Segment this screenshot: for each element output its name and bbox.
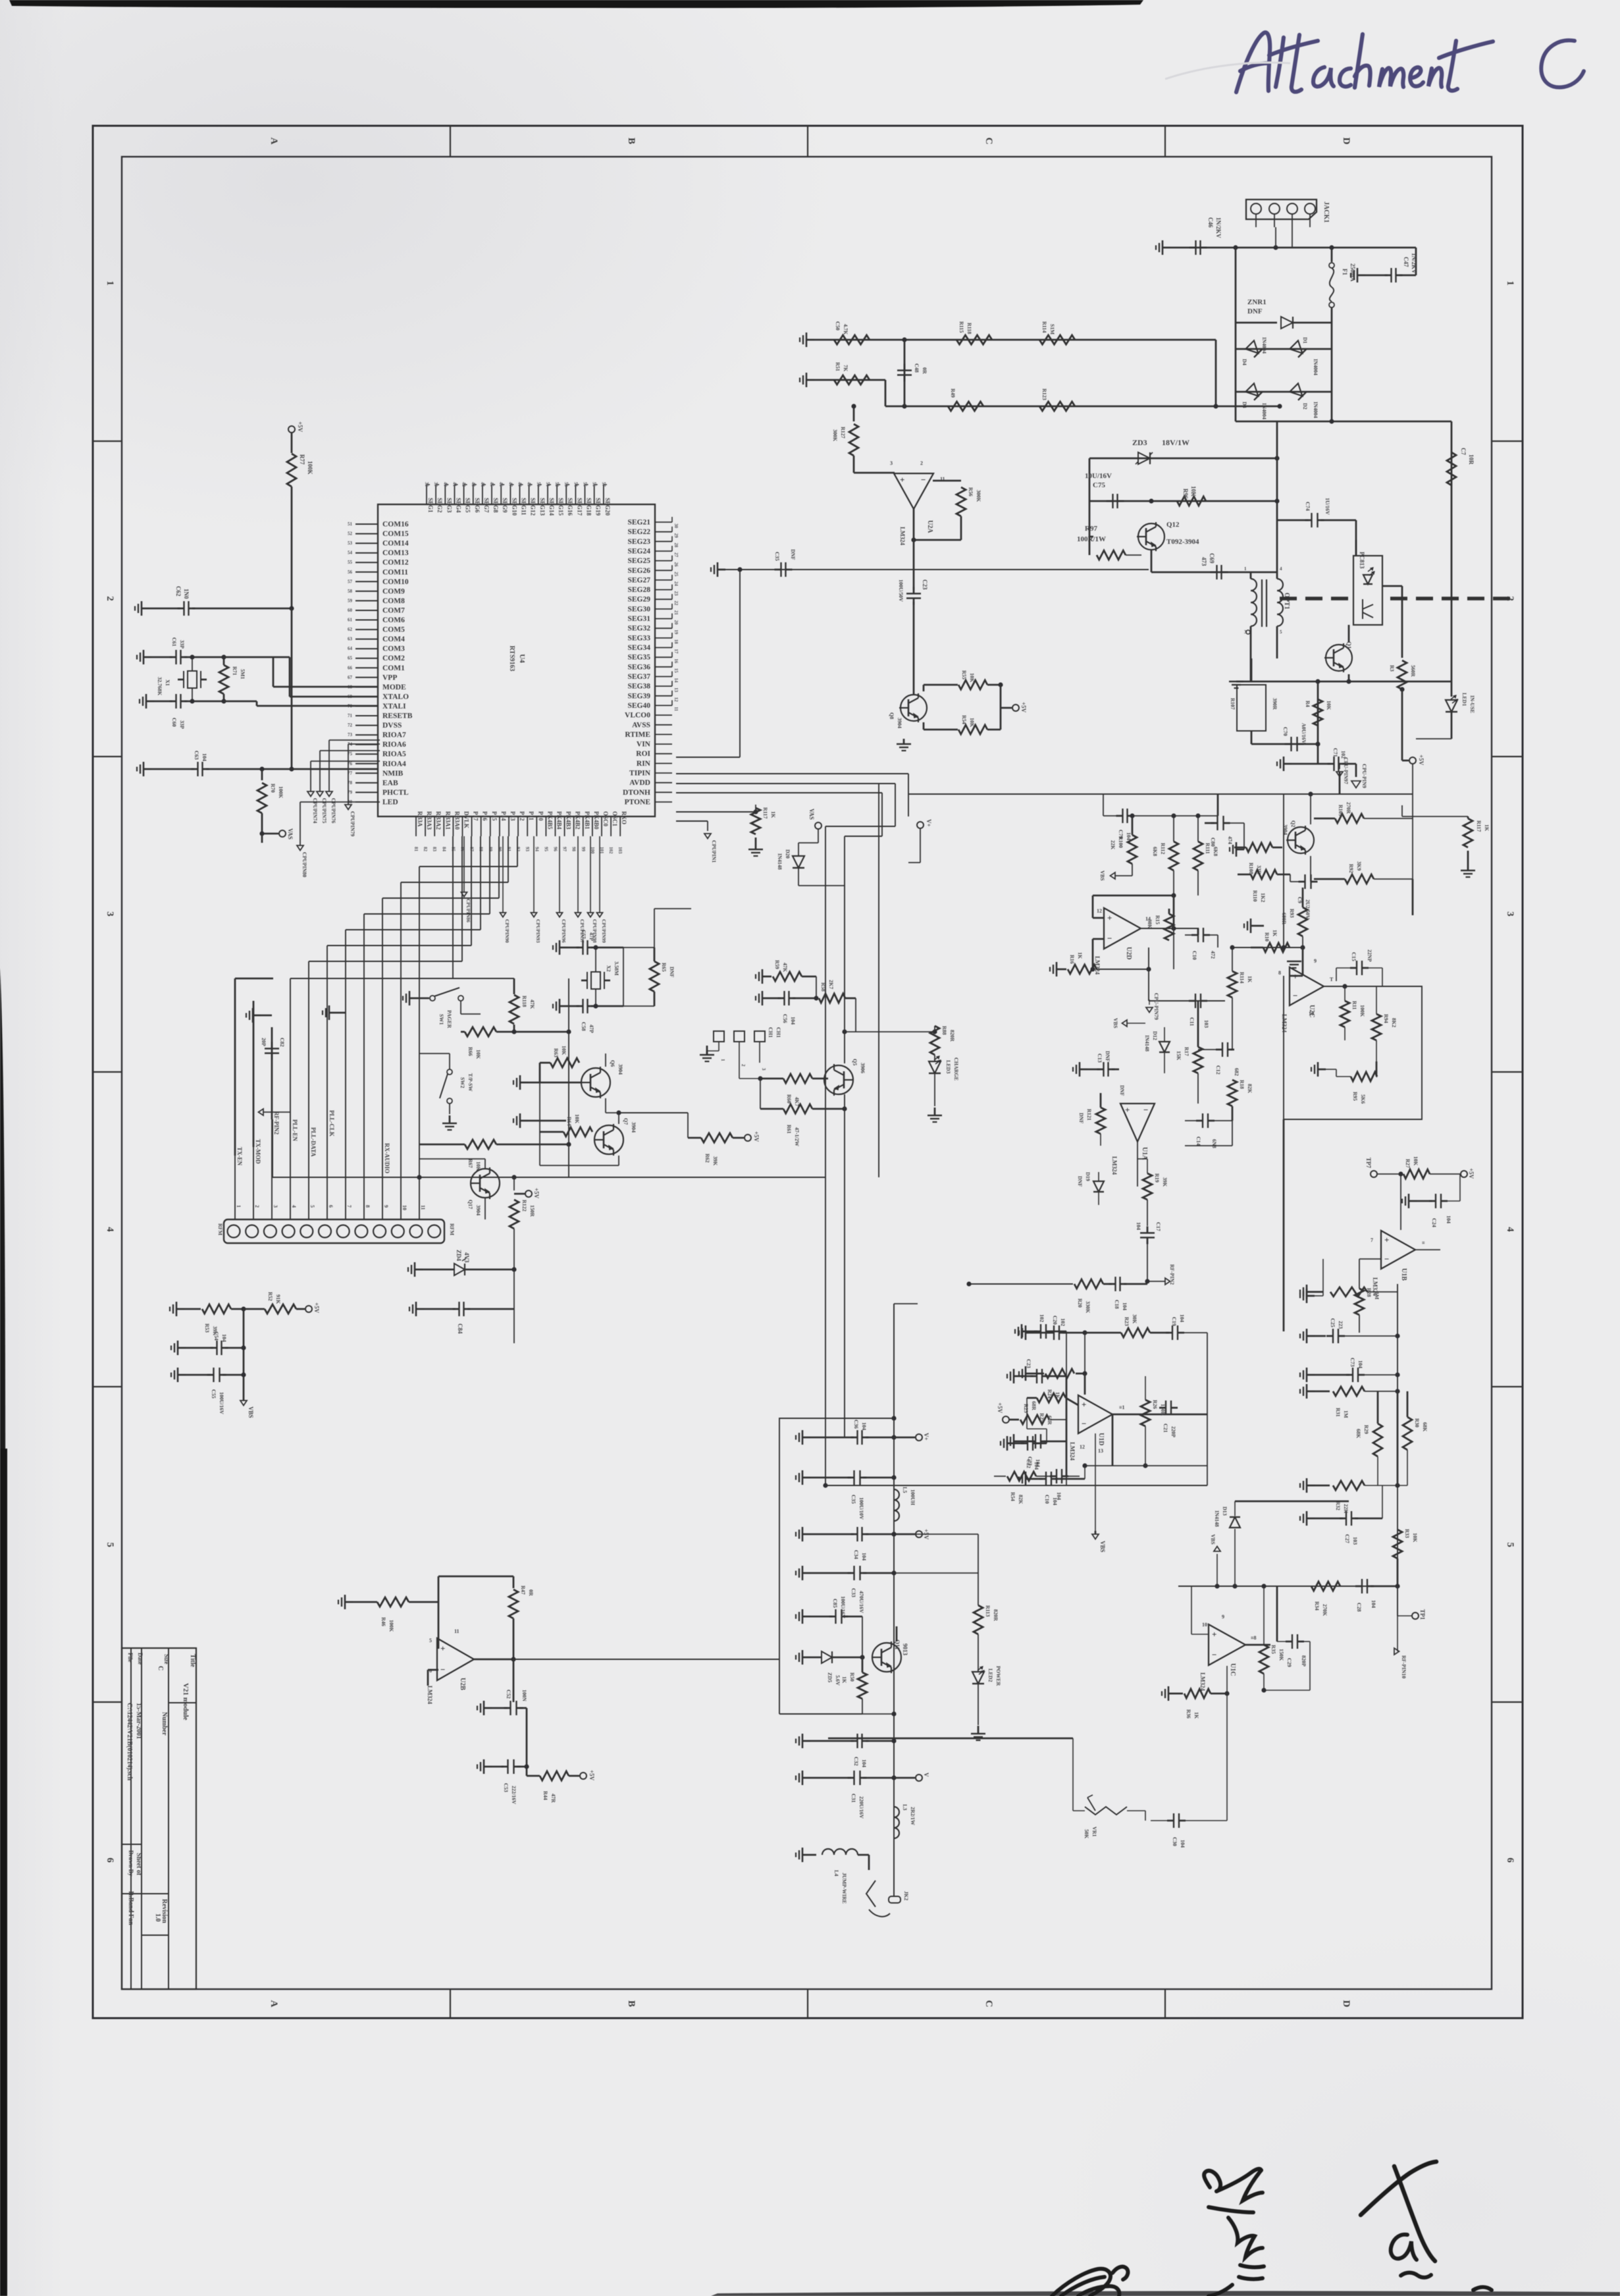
svg-text:VBS: VBS bbox=[1210, 1534, 1216, 1545]
svg-text:SEG11: SEG11 bbox=[521, 498, 527, 516]
svg-text:R17: R17 bbox=[1184, 1047, 1189, 1056]
svg-text:1U/16V: 1U/16V bbox=[1324, 498, 1330, 515]
svg-text:5: 5 bbox=[429, 1638, 432, 1643]
svg-text:U4: U4 bbox=[518, 654, 526, 663]
svg-text:COM2: COM2 bbox=[382, 654, 405, 662]
svg-text:2: 2 bbox=[254, 1205, 260, 1208]
svg-text:−: − bbox=[1384, 1254, 1389, 1264]
svg-text:P13: P13 bbox=[510, 811, 516, 821]
svg-text:R11: R11 bbox=[1351, 1001, 1357, 1009]
svg-text:R26: R26 bbox=[1152, 1400, 1158, 1409]
svg-text:R118: R118 bbox=[521, 996, 527, 1007]
svg-text:22: 22 bbox=[673, 601, 679, 606]
svg-text:10K: 10K bbox=[1413, 1156, 1419, 1166]
svg-text:98: 98 bbox=[571, 847, 577, 852]
svg-text:7K: 7K bbox=[843, 365, 849, 372]
svg-text:RF-PIN2: RF-PIN2 bbox=[1169, 1264, 1175, 1285]
svg-text:3: 3 bbox=[273, 1205, 278, 1208]
svg-text:TP7: TP7 bbox=[1365, 1158, 1372, 1169]
svg-text:32.768K: 32.768K bbox=[157, 677, 163, 696]
svg-text:300K: 300K bbox=[832, 429, 838, 442]
svg-text:X1: X1 bbox=[165, 680, 170, 686]
svg-text:IN4148: IN4148 bbox=[1144, 1035, 1150, 1052]
svg-text:C47: C47 bbox=[1403, 257, 1409, 267]
svg-text:TX-EN: TX-EN bbox=[236, 1147, 243, 1166]
svg-text:3: 3 bbox=[105, 911, 115, 917]
svg-text:C10: C10 bbox=[1191, 951, 1197, 960]
svg-text:SEG33: SEG33 bbox=[627, 634, 650, 642]
svg-text:R19: R19 bbox=[1154, 1173, 1160, 1183]
svg-text:Sheet of: Sheet of bbox=[135, 1853, 142, 1876]
svg-text:IN4004: IN4004 bbox=[1313, 359, 1319, 375]
svg-text:C74: C74 bbox=[1305, 502, 1311, 511]
svg-text:R16: R16 bbox=[1069, 955, 1075, 964]
svg-text:R108: R108 bbox=[1248, 863, 1254, 874]
svg-text:R112: R112 bbox=[1160, 843, 1166, 854]
svg-text:R114: R114 bbox=[1041, 321, 1047, 333]
svg-text:PK4B2: PK4B2 bbox=[575, 811, 581, 830]
svg-text:R117: R117 bbox=[762, 807, 768, 818]
svg-text:R110: R110 bbox=[1252, 890, 1258, 901]
svg-text:CPUPIN98: CPUPIN98 bbox=[592, 919, 598, 943]
svg-text:R20: R20 bbox=[1077, 1298, 1083, 1308]
svg-text:104: 104 bbox=[1126, 832, 1132, 840]
svg-text:SEG34: SEG34 bbox=[627, 644, 650, 652]
svg-text:C75: C75 bbox=[1093, 481, 1105, 489]
svg-text:3904: 3904 bbox=[897, 718, 902, 728]
svg-text:SEG31: SEG31 bbox=[627, 615, 650, 623]
svg-text:C: C bbox=[157, 1666, 164, 1670]
svg-text:10K: 10K bbox=[561, 1046, 567, 1055]
svg-text:R65: R65 bbox=[661, 963, 667, 972]
svg-text:C52: C52 bbox=[506, 1690, 511, 1699]
svg-text:2R2/1W: 2R2/1W bbox=[910, 1807, 916, 1825]
svg-text:104: 104 bbox=[1136, 1222, 1141, 1230]
svg-text:103: 103 bbox=[1203, 1020, 1209, 1028]
svg-text:RIOA5: RIOA5 bbox=[382, 751, 406, 759]
svg-text:COM10: COM10 bbox=[382, 578, 409, 586]
svg-text:R93: R93 bbox=[1289, 909, 1295, 918]
svg-text:COM3: COM3 bbox=[382, 645, 405, 653]
svg-text:1K: 1K bbox=[1193, 1712, 1199, 1719]
svg-text:R10: R10 bbox=[1264, 932, 1270, 942]
svg-text:−: − bbox=[921, 475, 926, 485]
svg-text:X2: X2 bbox=[606, 965, 612, 972]
svg-text:V21 module: V21 module bbox=[182, 1683, 190, 1721]
svg-text:D: D bbox=[1341, 2000, 1351, 2008]
svg-text:CPU-PIN9: CPU-PIN9 bbox=[1361, 764, 1367, 788]
svg-text:C82: C82 bbox=[279, 1038, 285, 1047]
svg-text:Number: Number bbox=[161, 1712, 168, 1736]
svg-text:Q6: Q6 bbox=[610, 1060, 615, 1067]
svg-text:57: 57 bbox=[348, 579, 353, 584]
svg-text:+5V: +5V bbox=[533, 1188, 540, 1199]
svg-text:COM16: COM16 bbox=[382, 521, 409, 529]
svg-text:C15: C15 bbox=[1351, 952, 1357, 961]
svg-text:COM15: COM15 bbox=[382, 530, 409, 538]
svg-text:C46: C46 bbox=[1207, 217, 1214, 228]
svg-text:94: 94 bbox=[534, 847, 539, 852]
svg-text:82K: 82K bbox=[1018, 1495, 1024, 1505]
svg-text:VIN: VIN bbox=[637, 741, 651, 749]
svg-text:C30: C30 bbox=[1172, 1837, 1178, 1846]
svg-text:SEG16: SEG16 bbox=[567, 498, 573, 516]
svg-text:R15: R15 bbox=[1155, 915, 1161, 924]
svg-text:C21: C21 bbox=[1163, 1424, 1168, 1433]
svg-text:COM8: COM8 bbox=[382, 597, 405, 605]
svg-text:R27: R27 bbox=[1405, 1159, 1411, 1168]
svg-text:RB3A2: RB3A2 bbox=[435, 811, 442, 830]
svg-text:R63: R63 bbox=[553, 1048, 559, 1057]
svg-text:23: 23 bbox=[673, 591, 679, 597]
svg-text:1M: 1M bbox=[1374, 1292, 1380, 1300]
svg-text:43: 43 bbox=[471, 482, 476, 487]
svg-text:Date: Date bbox=[137, 1653, 144, 1665]
svg-text:≡1: ≡1 bbox=[1119, 1404, 1125, 1410]
svg-text:F1: F1 bbox=[1342, 269, 1348, 275]
svg-text:LED: LED bbox=[382, 799, 398, 807]
svg-text:P10: P10 bbox=[537, 811, 544, 821]
svg-text:CHARGE: CHARGE bbox=[953, 1057, 959, 1081]
svg-text:1: 1 bbox=[1244, 566, 1247, 572]
svg-text:SEG37: SEG37 bbox=[627, 673, 650, 681]
svg-text:RIOA6: RIOA6 bbox=[382, 741, 406, 749]
svg-text:R49: R49 bbox=[950, 388, 956, 398]
svg-text:DNF: DNF bbox=[1119, 1085, 1125, 1096]
svg-text:DNF: DNF bbox=[669, 967, 675, 978]
svg-text:B: B bbox=[626, 138, 637, 144]
svg-text:RF-PIN2: RF-PIN2 bbox=[273, 1111, 280, 1135]
svg-text:10K: 10K bbox=[1326, 701, 1332, 710]
svg-text:104: 104 bbox=[1179, 1314, 1185, 1322]
svg-text:2K7: 2K7 bbox=[828, 980, 834, 989]
svg-text:1K: 1K bbox=[1077, 952, 1083, 959]
svg-text:COM4: COM4 bbox=[382, 635, 405, 643]
svg-text:10K: 10K bbox=[969, 718, 975, 728]
svg-text:14: 14 bbox=[673, 678, 679, 683]
svg-text:V: V bbox=[923, 1773, 929, 1777]
svg-text:33P: 33P bbox=[179, 640, 185, 649]
svg-text:R30: R30 bbox=[1414, 1418, 1420, 1428]
svg-text:T092-3904: T092-3904 bbox=[1166, 538, 1199, 546]
svg-text:+5V: +5V bbox=[753, 1131, 760, 1142]
svg-text:100K: 100K bbox=[307, 461, 313, 475]
svg-text:LM324: LM324 bbox=[1281, 1014, 1288, 1032]
svg-text:C22: C22 bbox=[1026, 1459, 1032, 1468]
svg-text:R64: R64 bbox=[566, 1117, 572, 1126]
svg-text:U2B: U2B bbox=[459, 1678, 466, 1690]
svg-text:4: 4 bbox=[1280, 566, 1282, 572]
svg-text:66: 66 bbox=[348, 665, 353, 670]
svg-text:R54: R54 bbox=[961, 715, 967, 724]
svg-text:CPUPIN80: CPUPIN80 bbox=[301, 852, 307, 877]
svg-text:SEG5: SEG5 bbox=[465, 498, 471, 513]
svg-text:R88: R88 bbox=[941, 1026, 947, 1035]
svg-text:A: A bbox=[269, 138, 279, 145]
svg-text:7: 7 bbox=[346, 1205, 352, 1208]
svg-text:C7: C7 bbox=[1460, 448, 1467, 455]
svg-text:RTIME: RTIME bbox=[625, 731, 650, 739]
svg-text:104: 104 bbox=[861, 1553, 867, 1561]
svg-text:C18: C18 bbox=[1114, 1300, 1120, 1309]
svg-text:10K: 10K bbox=[574, 1114, 580, 1124]
svg-text:+5V: +5V bbox=[997, 1402, 1003, 1414]
svg-text:2: 2 bbox=[920, 460, 923, 466]
svg-text:C12: C12 bbox=[1215, 1065, 1221, 1075]
svg-text:2: 2 bbox=[741, 1064, 746, 1067]
svg-text:TX-MOD: TX-MOD bbox=[255, 1139, 261, 1164]
svg-text:PK4B5: PK4B5 bbox=[546, 811, 553, 830]
svg-text:P16: P16 bbox=[482, 811, 488, 821]
svg-text:6: 6 bbox=[328, 1205, 334, 1208]
svg-text:C36: C36 bbox=[853, 1420, 859, 1429]
svg-text:CPU-PIN79: CPU-PIN79 bbox=[1153, 993, 1159, 1020]
svg-text:LM324: LM324 bbox=[1111, 1156, 1118, 1175]
svg-text:C20: C20 bbox=[1052, 1316, 1058, 1325]
svg-text:59: 59 bbox=[348, 598, 353, 603]
svg-text:15: 15 bbox=[673, 668, 679, 674]
svg-text:55: 55 bbox=[348, 560, 353, 565]
svg-text:1N0: 1N0 bbox=[183, 589, 190, 599]
svg-text:33P: 33P bbox=[179, 720, 185, 729]
svg-text:C61: C61 bbox=[171, 637, 177, 647]
svg-text:−: − bbox=[1082, 1419, 1086, 1429]
svg-text:1M: 1M bbox=[1343, 1410, 1349, 1418]
svg-text:SEG3: SEG3 bbox=[446, 498, 452, 513]
svg-text:Q5: Q5 bbox=[852, 1059, 858, 1065]
svg-text:P14: P14 bbox=[500, 811, 507, 821]
svg-text:PK4B0: PK4B0 bbox=[593, 811, 600, 830]
svg-text:71: 71 bbox=[348, 713, 353, 718]
svg-text:R51: R51 bbox=[835, 362, 841, 371]
svg-text:R66: R66 bbox=[467, 1047, 473, 1056]
svg-text:C80: C80 bbox=[1210, 838, 1216, 847]
svg-text:PC813: PC813 bbox=[1359, 552, 1365, 569]
svg-text:64: 64 bbox=[348, 646, 353, 651]
svg-text:−: − bbox=[1143, 1105, 1148, 1115]
svg-text:10R: 10R bbox=[1468, 454, 1475, 465]
svg-text:RIOA7: RIOA7 bbox=[382, 732, 406, 739]
svg-text:104: 104 bbox=[1033, 1462, 1039, 1470]
svg-text:+: + bbox=[1384, 1235, 1389, 1245]
svg-text:330K: 330K bbox=[1085, 1301, 1091, 1314]
svg-text:47R: 47R bbox=[550, 1794, 556, 1803]
svg-text:83: 83 bbox=[432, 847, 437, 852]
svg-text:42: 42 bbox=[461, 482, 467, 487]
svg-text:NMIB: NMIB bbox=[382, 770, 404, 778]
svg-text:+: + bbox=[440, 1643, 445, 1653]
svg-text:91K: 91K bbox=[275, 1295, 281, 1304]
svg-text:10K: 10K bbox=[969, 673, 975, 683]
svg-text:C19: C19 bbox=[1171, 1317, 1177, 1326]
svg-text:12: 12 bbox=[1080, 1444, 1085, 1450]
svg-text:AVSS: AVSS bbox=[632, 721, 650, 729]
svg-text:4.7K: 4.7K bbox=[843, 324, 849, 335]
svg-text:DNF: DNF bbox=[1078, 1113, 1084, 1124]
svg-text:SEG27: SEG27 bbox=[627, 576, 650, 584]
svg-text:21: 21 bbox=[673, 610, 679, 616]
svg-text:LED3: LED3 bbox=[945, 1060, 951, 1073]
svg-text:CPUPIN1: CPUPIN1 bbox=[711, 840, 717, 863]
svg-text:XTALI: XTALI bbox=[382, 703, 406, 710]
svg-text:50: 50 bbox=[536, 482, 541, 487]
svg-text:S1M: S1M bbox=[1049, 324, 1055, 334]
svg-text:VAS: VAS bbox=[808, 809, 815, 820]
svg-text:+: + bbox=[1212, 1630, 1216, 1640]
svg-text:C62: C62 bbox=[175, 586, 182, 597]
svg-text:R18: R18 bbox=[1239, 1080, 1245, 1089]
svg-text:60: 60 bbox=[348, 608, 353, 613]
svg-text:R107: R107 bbox=[1230, 698, 1236, 710]
svg-text:PAGER: PAGER bbox=[446, 1010, 452, 1028]
svg-text:CPUPIN90: CPUPIN90 bbox=[504, 919, 510, 943]
svg-text:SW1: SW1 bbox=[438, 1014, 444, 1025]
svg-text:25: 25 bbox=[673, 572, 679, 577]
svg-text:1K: 1K bbox=[841, 1676, 847, 1684]
svg-text:5: 5 bbox=[309, 1205, 315, 1208]
svg-text:67: 67 bbox=[348, 675, 353, 680]
svg-text:R114: R114 bbox=[1239, 972, 1245, 983]
svg-text:−: − bbox=[1293, 991, 1297, 1001]
svg-text:CPUPIN99: CPUPIN99 bbox=[601, 919, 607, 943]
svg-text:R23: R23 bbox=[1124, 1317, 1130, 1326]
svg-text:5M1: 5M1 bbox=[240, 669, 246, 680]
svg-text:R23: R23 bbox=[1023, 1404, 1029, 1413]
svg-text:99: 99 bbox=[581, 847, 586, 852]
svg-text:+: + bbox=[1107, 913, 1112, 923]
svg-text:RB3A: RB3A bbox=[417, 811, 423, 827]
svg-text:97: 97 bbox=[562, 847, 567, 852]
svg-text:10K: 10K bbox=[1412, 1533, 1418, 1543]
svg-text:JK2: JK2 bbox=[903, 1891, 909, 1900]
svg-text:46: 46 bbox=[498, 482, 504, 487]
svg-text:MODE: MODE bbox=[382, 683, 406, 691]
svg-text:SEG19: SEG19 bbox=[595, 498, 602, 516]
svg-text:68R: 68R bbox=[1031, 1401, 1037, 1410]
svg-text:8: 8 bbox=[1278, 970, 1281, 976]
svg-text:11: 11 bbox=[673, 707, 679, 711]
svg-text:1N/2KV: 1N/2KV bbox=[1215, 217, 1222, 238]
svg-text:C63: C63 bbox=[194, 751, 199, 760]
svg-text:1K: 1K bbox=[1272, 930, 1278, 937]
svg-text:100K: 100K bbox=[388, 1620, 394, 1632]
svg-text:VAS: VAS bbox=[287, 828, 294, 840]
svg-text:R32: R32 bbox=[1335, 1501, 1341, 1510]
svg-text:12: 12 bbox=[673, 697, 679, 703]
svg-text:R96: R96 bbox=[1182, 489, 1189, 499]
svg-text:47K: 47K bbox=[782, 963, 788, 973]
svg-text:44: 44 bbox=[480, 482, 485, 487]
svg-text:82K: 82K bbox=[1247, 1084, 1253, 1094]
svg-text:30K: 30K bbox=[1147, 919, 1153, 929]
svg-text:53: 53 bbox=[348, 541, 353, 546]
svg-text:+5V: +5V bbox=[1468, 1168, 1475, 1179]
svg-text:45: 45 bbox=[489, 482, 494, 487]
svg-text:SEG8: SEG8 bbox=[492, 498, 499, 513]
svg-text:19: 19 bbox=[673, 629, 679, 635]
svg-text:PHCTL: PHCTL bbox=[382, 789, 409, 797]
svg-text:D2: D2 bbox=[1302, 403, 1308, 410]
svg-text:DNF: DNF bbox=[1077, 1176, 1083, 1187]
svg-text:6K8: 6K8 bbox=[1152, 847, 1158, 856]
svg-text:R94: R94 bbox=[1383, 1014, 1389, 1023]
svg-text:C33: C33 bbox=[850, 1588, 856, 1597]
svg-text:R58: R58 bbox=[820, 982, 826, 992]
svg-text:R92: R92 bbox=[1348, 864, 1354, 873]
svg-text:C23: C23 bbox=[1026, 1359, 1032, 1368]
svg-text:103: 103 bbox=[617, 847, 623, 854]
svg-text:D: D bbox=[1341, 138, 1351, 145]
svg-text:820P: 820P bbox=[1301, 1655, 1307, 1667]
svg-text:100N: 100N bbox=[521, 1690, 527, 1701]
svg-text:10: 10 bbox=[1309, 1011, 1314, 1017]
svg-text:Q8: Q8 bbox=[889, 712, 895, 719]
svg-text:3: 3 bbox=[890, 460, 893, 466]
svg-text:IN4148: IN4148 bbox=[1214, 1510, 1220, 1527]
svg-text:C48: C48 bbox=[914, 363, 920, 373]
svg-text:8K2: 8K2 bbox=[1391, 1018, 1397, 1027]
svg-text:SEG29: SEG29 bbox=[627, 596, 650, 604]
svg-text:+5V: +5V bbox=[313, 1302, 320, 1314]
svg-text:R61: R61 bbox=[786, 1125, 792, 1134]
svg-text:RIOA4: RIOA4 bbox=[382, 760, 406, 768]
svg-text:68K: 68K bbox=[1355, 1429, 1361, 1439]
svg-text:PK4B3: PK4B3 bbox=[565, 811, 572, 830]
svg-text:104: 104 bbox=[790, 1017, 796, 1025]
svg-text:104: 104 bbox=[1371, 1600, 1376, 1608]
svg-text:RXO: RXO bbox=[621, 811, 627, 824]
svg-text:52: 52 bbox=[348, 531, 353, 537]
svg-text:DVLK: DVLK bbox=[463, 811, 470, 828]
svg-text:SEG12: SEG12 bbox=[530, 498, 536, 516]
svg-text:RFM: RFM bbox=[449, 1223, 455, 1236]
svg-text:1: 1 bbox=[1505, 280, 1515, 286]
svg-text:47K: 47K bbox=[529, 1000, 535, 1009]
svg-text:R122: R122 bbox=[521, 1200, 527, 1212]
svg-text:RB3A3: RB3A3 bbox=[426, 811, 432, 830]
svg-text:16: 16 bbox=[673, 658, 679, 664]
svg-text:B: B bbox=[626, 2000, 637, 2007]
svg-text:C14: C14 bbox=[1195, 1136, 1201, 1146]
svg-text:C60: C60 bbox=[171, 718, 177, 727]
svg-text:C28: C28 bbox=[1356, 1603, 1362, 1612]
svg-text:96: 96 bbox=[553, 847, 558, 852]
svg-text:SEG9: SEG9 bbox=[502, 498, 508, 513]
svg-text:C69: C69 bbox=[1209, 553, 1215, 564]
svg-text:OPT1: OPT1 bbox=[1283, 593, 1290, 610]
svg-text:C85: C85 bbox=[832, 1599, 838, 1608]
svg-text:C71: C71 bbox=[1332, 748, 1338, 757]
svg-text:100U/16V: 100U/16V bbox=[840, 1596, 846, 1618]
svg-text:R34: R34 bbox=[1314, 1601, 1320, 1611]
svg-text:51: 51 bbox=[545, 482, 550, 487]
svg-text:R77: R77 bbox=[299, 454, 305, 465]
svg-text:SEG22: SEG22 bbox=[627, 528, 650, 536]
svg-text:10K: 10K bbox=[475, 1050, 481, 1059]
svg-text:C53: C53 bbox=[503, 1783, 509, 1792]
svg-text:COM11: COM11 bbox=[382, 568, 408, 576]
svg-text:104: 104 bbox=[201, 753, 207, 761]
svg-text:C: C bbox=[983, 2000, 994, 2008]
svg-text:104: 104 bbox=[1180, 1840, 1186, 1848]
svg-text:SEG26: SEG26 bbox=[627, 567, 650, 575]
svg-text:65: 65 bbox=[348, 656, 353, 661]
svg-text:820R: 820R bbox=[949, 1030, 955, 1042]
svg-text:CPUPIN86: CPUPIN86 bbox=[465, 899, 471, 922]
svg-text:R123: R123 bbox=[1041, 388, 1047, 400]
svg-text:R115: R115 bbox=[958, 321, 964, 333]
svg-text:95: 95 bbox=[543, 847, 548, 852]
